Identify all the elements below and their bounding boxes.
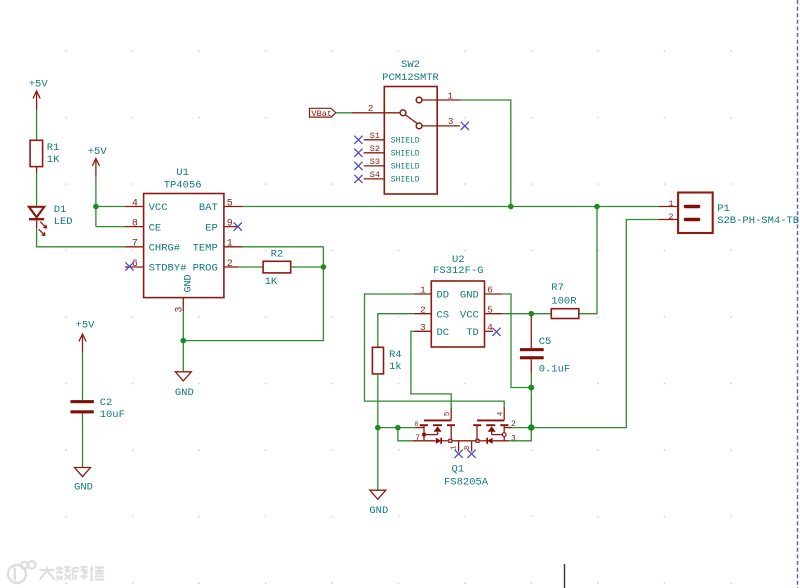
no-connect X SW2 S3 (354, 162, 362, 170)
svg-text:9: 9 (227, 218, 233, 229)
no-connect X U1 EP (234, 223, 242, 231)
svg-text:3: 3 (420, 322, 426, 333)
transistor Q1 FS8205A dual MOSFET (444, 464, 489, 489)
svg-text:10uF: 10uF (100, 409, 125, 421)
svg-text:3: 3 (511, 434, 516, 443)
svg-text:GND: GND (460, 290, 479, 302)
no-connect X Q1 pin 1 (455, 450, 463, 458)
power +5V symbol (to C2) (76, 320, 96, 353)
svg-text:5: 5 (227, 198, 233, 209)
wire +5V to U1 VCC and CE (96, 177, 125, 227)
svg-text:8: 8 (132, 218, 138, 229)
ground symbol GND (U1) (175, 372, 194, 399)
svg-text:SHIELD: SHIELD (391, 137, 420, 146)
wire U2 DC to Q1 gate 1 (411, 331, 451, 407)
Q1 bottom pin stub 1 (451, 441, 459, 452)
wire U2 CS to R4 (378, 314, 414, 348)
wire Q1 source/gate return net (378, 428, 416, 441)
Q1 rail node square 2 (476, 439, 479, 442)
power +5V symbol (to U1 VCC) (88, 146, 108, 177)
svg-text:TEMP: TEMP (193, 243, 218, 255)
no-connect X SW2 S4 (354, 175, 362, 183)
svg-text:1: 1 (227, 239, 233, 250)
svg-text:5: 5 (487, 304, 493, 315)
svg-text:P1: P1 (717, 203, 730, 215)
svg-text:R7: R7 (551, 282, 564, 294)
Q1 MOSFET half 2 (pins 4,2,3) (473, 408, 516, 444)
wire U2 DD to Q1 gate 2 (365, 294, 505, 408)
video cursor line (564, 564, 566, 588)
svg-text:FS8205A: FS8205A (444, 477, 489, 489)
junction node +5V/VCC (93, 204, 99, 210)
ground symbol GND (C2) (74, 468, 93, 494)
svg-text:+5V: +5V (88, 146, 108, 158)
Q1 rail node square 1 (449, 439, 452, 442)
svg-text:2: 2 (420, 304, 426, 315)
svg-text:Q1: Q1 (452, 464, 465, 476)
wire U1 TEMP to vertical (243, 246, 324, 248)
wire R4 to ground (377, 374, 379, 490)
svg-text:CS: CS (437, 309, 450, 321)
svg-text:D1: D1 (54, 204, 67, 216)
no-connect X SW2 S1 (354, 136, 362, 144)
IC U1 TP4056 (125, 167, 243, 313)
no-connect X U1 STDBY# (125, 262, 133, 270)
wire +5V to C2 (82, 352, 84, 400)
watermark text (40, 566, 105, 580)
junction node VCC/C5 top (529, 311, 535, 317)
global label VBat (310, 108, 336, 119)
svg-text:7: 7 (415, 434, 420, 443)
svg-text:S1: S1 (370, 131, 380, 141)
no-connect X U2 TD (492, 328, 500, 336)
svg-text:R4: R4 (389, 349, 402, 361)
svg-text:S4: S4 (370, 170, 380, 180)
svg-text:1: 1 (451, 446, 459, 450)
svg-text:1: 1 (448, 91, 453, 101)
svg-text:U1: U1 (176, 167, 189, 179)
svg-text:R1: R1 (47, 142, 60, 154)
svg-text:8: 8 (415, 421, 419, 428)
wire R1 to D1 (36, 167, 38, 206)
svg-text:7: 7 (132, 239, 138, 250)
wire D1 to U1 CHRG# pin 7 (37, 220, 125, 246)
junction node BAT/R7 branch (594, 204, 600, 210)
no-connect X SW2 S2 (354, 149, 362, 157)
wire C5 junction to Q1 drain rail (530, 388, 532, 428)
watermark logo (8, 561, 36, 583)
svg-text:+5V: +5V (29, 78, 49, 90)
svg-text:FS312F-G: FS312F-G (433, 265, 483, 277)
svg-text:C2: C2 (100, 397, 113, 409)
svg-text:DD: DD (437, 290, 450, 302)
connector P1 S2B-PH-SM4-T (658, 193, 799, 234)
junction node C5 bottom / U2 GND (528, 385, 534, 391)
junction node B- net (528, 424, 535, 431)
svg-text:4: 4 (132, 198, 138, 209)
svg-text:1: 1 (668, 199, 673, 209)
svg-text:100R: 100R (551, 295, 577, 307)
svg-text:GND: GND (183, 274, 194, 292)
svg-text:6: 6 (487, 285, 493, 296)
svg-text:TP4056: TP4056 (164, 179, 202, 191)
junction node U1 GND (181, 338, 187, 344)
svg-text:VCC: VCC (460, 309, 479, 321)
svg-text:6: 6 (132, 259, 138, 270)
wire Q1 rail to B- junction (509, 428, 531, 441)
svg-text:1K: 1K (47, 154, 60, 166)
junction node Q1 pin8 (395, 425, 401, 431)
junction node BAT/SW2 (508, 204, 514, 210)
svg-text:EP: EP (205, 222, 218, 234)
svg-text:3: 3 (448, 117, 453, 127)
Q1 bottom pin stub 8 (464, 441, 472, 452)
wire C2 to ground (82, 413, 84, 467)
Q1 body diode 2 (479, 438, 509, 444)
Q1 body diode 1 (413, 438, 449, 444)
svg-text:GND: GND (74, 481, 93, 493)
svg-text:0.1uF: 0.1uF (539, 364, 571, 376)
svg-text:S2: S2 (370, 144, 380, 154)
wire BAT net U1 to P1 (243, 206, 659, 208)
svg-text:PROG: PROG (193, 263, 218, 275)
LED D1 (29, 204, 73, 236)
svg-text:1k: 1k (389, 361, 402, 373)
svg-text:S2B-PH-SM4-TB: S2B-PH-SM4-TB (717, 215, 799, 227)
junction node R4/Q1 sources (375, 425, 381, 431)
resistor R4 (372, 347, 401, 374)
no-connect X Q1 pin 8 (468, 450, 476, 458)
svg-text:SW2: SW2 (401, 59, 420, 71)
svg-text:SHIELD: SHIELD (391, 163, 420, 172)
wire Q1 pin 2 to B- junction (512, 427, 531, 429)
wire +5V to R1 (36, 110, 38, 140)
svg-text:SHIELD: SHIELD (391, 150, 420, 159)
no-connect X SW2 pin 3 (461, 122, 469, 130)
svg-text:2: 2 (368, 104, 373, 114)
capacitor C5 (520, 314, 570, 376)
wire SW2 pin 1 to BAT net (460, 100, 511, 207)
svg-text:1K: 1K (265, 276, 278, 288)
power +5V symbol (to R1) (29, 78, 49, 110)
svg-text:CE: CE (149, 222, 162, 234)
svg-text:1: 1 (420, 285, 426, 296)
svg-text:SHIELD: SHIELD (391, 176, 420, 185)
svg-text:GND: GND (175, 387, 194, 399)
svg-text:S3: S3 (370, 157, 380, 167)
wire U1 PROG to R2 (239, 266, 263, 268)
svg-text:STDBY#: STDBY# (149, 263, 187, 275)
capacitor C2 (71, 397, 125, 421)
Q1 MOSFET half 1 (pins 5,7,8) (415, 408, 455, 444)
svg-text:BAT: BAT (199, 202, 218, 214)
Q1 rail center segment (452, 440, 476, 442)
svg-text:8: 8 (464, 446, 472, 450)
wire R7 to BAT vertical (579, 207, 597, 314)
ground symbol GND (R4/Q1) (369, 490, 388, 517)
resistor R1 (30, 140, 60, 166)
svg-text:TD: TD (466, 327, 479, 339)
svg-text:CHRG#: CHRG# (149, 243, 181, 255)
svg-text:4: 4 (487, 322, 493, 333)
resistor R7 (551, 282, 579, 319)
svg-text:4: 4 (497, 411, 505, 416)
switch SW2 PCM12SMTR (352, 59, 460, 194)
svg-text:DC: DC (437, 327, 450, 339)
junction node R2/vertical (321, 264, 327, 270)
wire P1 pin2 to Q1 net (531, 220, 658, 428)
wire U2 VCC to R7 (502, 313, 551, 315)
IC U2 FS312F-G (414, 254, 502, 347)
svg-text:VBat: VBat (311, 109, 332, 119)
wire U2 GND pin to C5 bottom (502, 294, 531, 388)
svg-text:+5V: +5V (76, 320, 96, 332)
wire R2 to TEMP/GND vertical (291, 266, 324, 268)
svg-text:VCC: VCC (149, 202, 168, 214)
wire C5 bottom to junction (530, 373, 532, 388)
svg-text:R2: R2 (271, 249, 284, 261)
svg-text:2: 2 (668, 212, 673, 222)
wire VBat to SW2 pin 2 (336, 112, 352, 114)
svg-text:2: 2 (227, 259, 233, 270)
wire U1 GND pin to ground (183, 247, 323, 372)
svg-text:C5: C5 (539, 336, 552, 348)
svg-text:PCM12SMTR: PCM12SMTR (382, 72, 439, 84)
svg-text:GND: GND (369, 505, 388, 517)
svg-text:5: 5 (444, 411, 452, 416)
svg-text:LED: LED (54, 216, 73, 228)
resistor R2 (263, 249, 291, 289)
